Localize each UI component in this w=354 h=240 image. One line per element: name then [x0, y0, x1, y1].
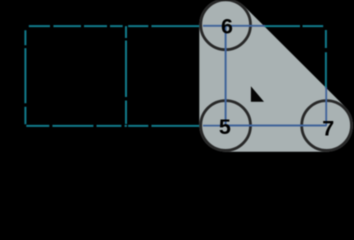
- grid line over shape: right column above node 7: [325, 87, 327, 126]
- wire: right edge: [325, 30, 327, 88]
- node 5: [201, 101, 251, 151]
- node 7: [302, 101, 352, 151]
- grid line over shape: top row through node 6: [203, 25, 265, 27]
- wire: bottom edge: [26, 125, 199, 127]
- cursor triangle: [251, 86, 264, 101]
- dashed grid: top edge dashes (y=25.8): [25, 26, 326, 127]
- svg-text:6: 6: [221, 15, 233, 39]
- grey triangle shape (rounded expansion of triangle 6-5-7): [226, 25, 327, 126]
- wire: top edge: [29, 25, 323, 27]
- grid line over shape: bottom row left of node 5: [203, 125, 226, 127]
- edge 5-7: [226, 125, 327, 127]
- edge 6-5: [225, 25, 227, 126]
- svg-text:5: 5: [219, 115, 231, 139]
- wire: left edge: [24, 30, 26, 124]
- svg-text:7: 7: [322, 116, 334, 140]
- wire: middle divider: [125, 26, 127, 127]
- node 6: [201, 0, 251, 50]
